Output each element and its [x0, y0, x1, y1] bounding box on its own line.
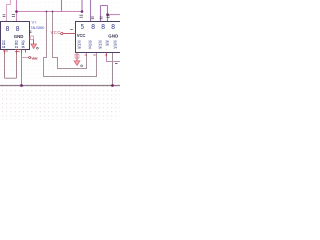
svg-text:8: 8 — [6, 24, 10, 33]
svg-text:8: 8 — [101, 22, 105, 31]
svg-text:8: 8 — [16, 24, 20, 33]
svg-text:5: 5 — [81, 22, 84, 31]
svg-text:74LS390: 74LS390 — [30, 25, 45, 30]
svg-text:18: 18 — [105, 43, 109, 47]
svg-text:16: 16 — [98, 46, 102, 50]
svg-text:VCC: VCC — [77, 33, 86, 38]
svg-text:11: 11 — [88, 46, 92, 50]
svg-text:VCC: VCC — [31, 55, 38, 60]
svg-text:14: 14 — [15, 45, 19, 49]
svg-text:8: 8 — [91, 22, 95, 31]
svg-text:V?: V? — [32, 20, 38, 25]
svg-text:16: 16 — [2, 45, 6, 49]
svg-text:8: 8 — [111, 22, 115, 31]
svg-text:GND: GND — [14, 34, 24, 39]
svg-text:15: 15 — [21, 45, 25, 49]
svg-text:VCC: VCC — [51, 30, 61, 35]
svg-text:14: 14 — [113, 46, 117, 50]
svg-text:18: 18 — [77, 46, 81, 50]
svg-text:GND: GND — [108, 33, 118, 38]
